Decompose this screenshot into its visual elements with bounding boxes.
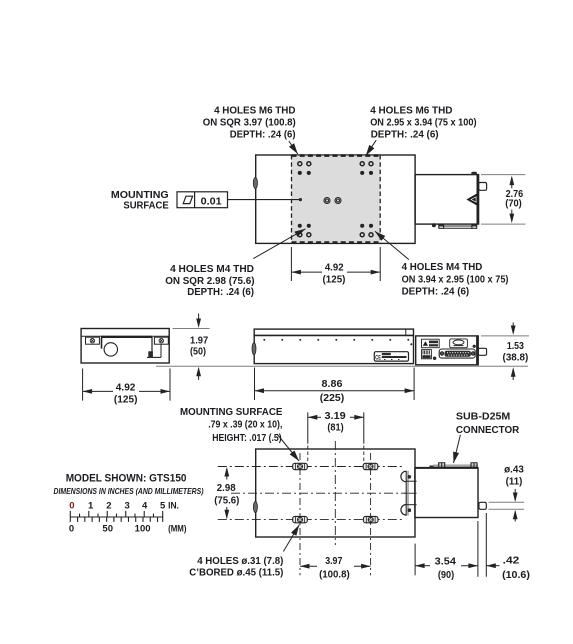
svg-text:SURFACE: SURFACE: [123, 200, 168, 211]
bottom view: motor shaft stub: [479, 502, 486, 509]
dimension 4.92 (125) carriage width, top view: [290, 247, 292, 281]
svg-text:0.01: 0.01: [201, 196, 222, 207]
top view: stage body outline: [256, 155, 415, 243]
dimension 2.76 (70) motor width, top view: [481, 174, 525, 176]
svg-text:4 HOLES M4 THD: 4 HOLES M4 THD: [402, 262, 483, 273]
bottom view: stage body outline: [256, 449, 415, 537]
svg-text:8.86: 8.86: [322, 379, 343, 390]
top view: motor top cap bump: [471, 172, 477, 175]
side view: extra dot right end: [410, 343, 412, 345]
top view: warning triangle label on motor: [466, 193, 477, 206]
svg-text:(10.6): (10.6): [502, 570, 530, 581]
bottom view: slot row centerline bottom: [218, 519, 402, 521]
svg-text:(MM): (MM): [168, 524, 186, 535]
svg-text:3.54: 3.54: [435, 557, 457, 568]
leader: M4 sqr to bottom-left holes: [253, 229, 305, 259]
leader: M6 sqr to top-left hole: [289, 141, 298, 154]
svg-text:C’BORED ø.45 (11.5): C’BORED ø.45 (11.5): [189, 567, 283, 578]
svg-text:HEIGHT: .017 (.5): HEIGHT: .017 (.5): [212, 433, 281, 444]
dimension o.43 (11) shaft diameter: [489, 501, 525, 503]
end view: body outline: [81, 329, 169, 364]
bottom view: centerline horizontal middle: [231, 492, 405, 494]
svg-text:4 HOLES M4 THD: 4 HOLES M4 THD: [170, 264, 254, 275]
dimension .42 (10.6) shaft length: [485, 513, 487, 577]
svg-text:MODEL SHOWN: GTS150: MODEL SHOWN: GTS150: [66, 473, 187, 485]
top view: M4 threaded holes (filled, inner rows): [299, 172, 301, 174]
side view: carriage end tick: [405, 329, 407, 335]
svg-text:4 HOLES ø.31 (7.8): 4 HOLES ø.31 (7.8): [197, 556, 283, 567]
leader: cbore to bottom-left slot: [283, 525, 299, 552]
bottom view: left edge bulge: [253, 501, 257, 512]
bottom view: four mounting slots: [293, 463, 308, 469]
svg-text:MOUNTING SURFACE: MOUNTING SURFACE: [180, 407, 283, 418]
svg-text:ON SQR 3.97 (100.8): ON SQR 3.97 (100.8): [203, 117, 296, 128]
svg-text:4 HOLES M6 THD: 4 HOLES M6 THD: [214, 106, 295, 117]
svg-text:(81): (81): [327, 422, 343, 433]
bottom view: slot column centerline left: [299, 453, 301, 575]
bottom view: slot column centerline right: [370, 453, 372, 575]
svg-text:1.53: 1.53: [507, 341, 524, 352]
leader: M6 rect to top-right hole: [366, 140, 377, 156]
leader: mounting surface flatness to carriage dot: [228, 199, 301, 201]
dimension 1.53 (38.8) motor height: [481, 335, 529, 337]
side view: screw dot: [433, 357, 436, 360]
end view: thick carriage center plate: [101, 336, 152, 338]
svg-text:0: 0: [69, 501, 74, 512]
svg-text:.42: .42: [503, 556, 520, 567]
svg-text:(11): (11): [506, 476, 523, 487]
svg-text:(38.8): (38.8): [503, 353, 529, 364]
svg-text:50: 50: [102, 524, 113, 535]
svg-text:DEPTH: .24 (6): DEPTH: .24 (6): [402, 286, 470, 297]
top view: motor bottom feet and rail: [439, 225, 477, 227]
svg-text:ø.43: ø.43: [504, 464, 524, 475]
side view: left edge bulge: [252, 343, 256, 355]
bottom view: vertical centerline: [334, 441, 336, 545]
svg-text:3.19: 3.19: [325, 411, 347, 422]
svg-text:1.97: 1.97: [190, 336, 209, 347]
svg-text:CONNECTOR: CONNECTOR: [456, 425, 520, 436]
svg-text:(75.6): (75.6): [214, 496, 239, 507]
dimension 3.97 (100.8) slot columns: [300, 565, 317, 567]
svg-text:4: 4: [142, 501, 148, 512]
svg-text:3.97: 3.97: [325, 556, 343, 567]
end view: internal bracket lines: [151, 337, 153, 358]
top view: motor right tab: [479, 183, 487, 191]
svg-text:4.92: 4.92: [325, 262, 344, 273]
side view: carriage/base split line: [254, 334, 413, 336]
leader: mounting surface to top-left slot: [277, 434, 299, 461]
bottom view: motor block: [415, 468, 478, 518]
svg-text:(90): (90): [438, 570, 454, 581]
top view: center pair of threaded holes: [324, 198, 330, 204]
end view: left clamp screw block: [86, 337, 100, 344]
side view: CE + serial label: [374, 352, 408, 361]
side view: SUB-D25 connector: [439, 349, 475, 358]
side view: barcode label: [422, 350, 432, 359]
svg-text:DEPTH: .24 (6): DEPTH: .24 (6): [230, 129, 296, 140]
dimension 3.54 (90) motor length: [414, 544, 416, 576]
dimension 3.19 (81) slot spacing: [307, 412, 309, 443]
top view: carriage gray square with dashed border: [292, 156, 381, 243]
side view: motor block: [416, 336, 479, 365]
svg-text:DEPTH: .24 (6): DEPTH: .24 (6): [187, 287, 254, 298]
end view: leadscrew circle: [104, 343, 117, 356]
svg-text:2: 2: [106, 501, 111, 512]
svg-text:DEPTH: .24 (6): DEPTH: .24 (6): [371, 129, 439, 140]
leader: connector label to motor top: [454, 435, 461, 463]
short dashed 3.19 extensions inside body above slots: [307, 446, 309, 463]
svg-text:4.92: 4.92: [116, 383, 136, 394]
svg-text:.79 x .39 (20 x 10),: .79 x .39 (20 x 10),: [208, 420, 282, 431]
svg-text:(125): (125): [114, 395, 138, 406]
dimension 2.98 (75.6) slot row spacing: [226, 469, 228, 480]
svg-text:IN.: IN.: [168, 501, 179, 512]
svg-text:2.98: 2.98: [217, 483, 236, 494]
dimension 1.97 (50) end view height: [173, 328, 210, 330]
svg-text:(125): (125): [323, 274, 346, 285]
svg-text:(70): (70): [505, 198, 522, 209]
svg-text:(100.8): (100.8): [319, 570, 350, 581]
svg-text:3: 3: [124, 501, 129, 512]
side view: stage body outline: [254, 329, 413, 364]
svg-text:(50): (50): [190, 347, 206, 358]
svg-text:0: 0: [69, 524, 74, 535]
svg-text:100: 100: [135, 524, 151, 535]
svg-text:ON 3.94 x 2.95 (100 x 75): ON 3.94 x 2.95 (100 x 75): [402, 274, 509, 285]
end view: small vertical bar left: [101, 338, 103, 349]
svg-text:ON SQR 2.98 (75.6): ON SQR 2.98 (75.6): [165, 276, 254, 287]
svg-text:4 HOLES M6 THD: 4 HOLES M6 THD: [370, 106, 452, 117]
side view: motor warning label: [422, 339, 440, 348]
svg-text:ON 2.95 x 3.94 (75 x 100): ON 2.95 x 3.94 (75 x 100): [370, 117, 476, 128]
scale ruler bar: [70, 516, 162, 518]
svg-text:DIMENSIONS IN INCHES (AND MILL: DIMENSIONS IN INCHES (AND MILLIMETERS): [54, 486, 204, 496]
feature control frame: flatness 0.01: [177, 192, 228, 208]
leader: M4 rect to bottom-right holes: [375, 231, 409, 259]
side view: row of access holes: [263, 339, 265, 341]
side view: Newport oval label: [450, 339, 468, 348]
dimension 4.92 (125) end view width: [82, 369, 84, 401]
svg-text:CE: CE: [375, 354, 381, 361]
bottom view: connector plate on motor top: [433, 464, 478, 466]
side view: screw above connector: [473, 345, 476, 348]
side view: right stub: [478, 348, 486, 355]
top view: M6 threaded holes (rings, outer rows): [298, 162, 302, 166]
dimension 8.86 (225) side view length: [254, 368, 256, 401]
svg-text:SUB-D25M: SUB-D25M: [456, 411, 510, 422]
bottom view: slot row centerline top: [218, 466, 402, 468]
svg-text:(225): (225): [320, 393, 344, 404]
top view: left edge bulge (leadscrew end): [253, 177, 257, 188]
end view: carriage top plate line: [81, 335, 169, 337]
bottom view: motor left mounting plate with ears: [405, 471, 407, 516]
svg-text:1: 1: [88, 501, 94, 512]
top view: motor block: [415, 175, 479, 225]
end view: right clamp screw block: [154, 337, 168, 344]
svg-text:5: 5: [160, 501, 166, 512]
